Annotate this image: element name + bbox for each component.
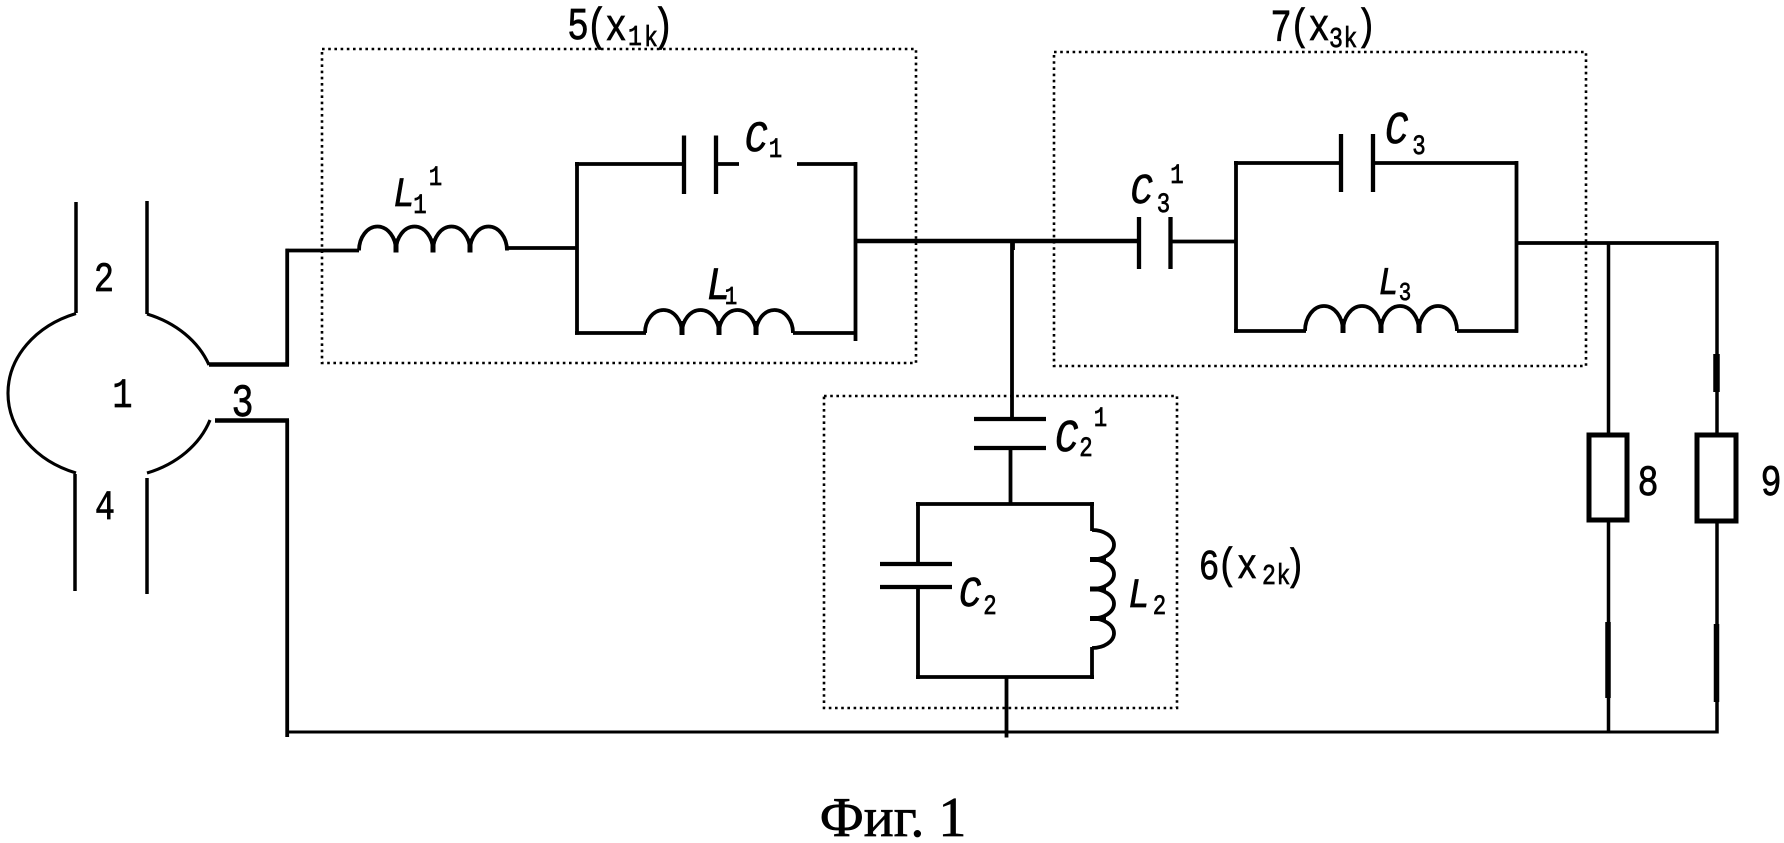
resistor 9 body: [1697, 435, 1736, 521]
tank6 right edge bottom segment: [1090, 647, 1094, 679]
resistor 8 lead top: [1607, 243, 1611, 437]
tank6 left edge upper: [916, 502, 920, 564]
inductor L3 coil: [1305, 306, 1457, 331]
label C2': [1055, 403, 1107, 465]
svg-text:L: L: [1378, 262, 1398, 306]
terminal 4 leads: [75, 474, 147, 594]
terminal 2 leads: [76, 201, 147, 314]
tank7 top-left wire: [1234, 161, 1341, 165]
block 5 title 5(x1k): [567, 1, 674, 54]
svg-text:1: 1: [413, 190, 426, 222]
capacitor C3' plates: [1139, 217, 1171, 269]
svg-text:4: 4: [95, 485, 115, 532]
resistor 9 lead bottom: [1715, 521, 1719, 734]
wire junction down to C2': [1010, 241, 1014, 421]
capacitor C3 plates: [1341, 134, 1373, 192]
device 1 ellipse body: [8, 314, 210, 474]
capacitor C2 plates: [880, 564, 952, 587]
svg-text:C: C: [745, 116, 768, 165]
tank6 right edge top segment: [1090, 502, 1094, 531]
block 6 label 6(x2k): [1199, 542, 1306, 593]
tank5 top-left wire: [575, 162, 684, 166]
svg-text:): ): [1355, 3, 1376, 53]
svg-text:Фиг. 1: Фиг. 1: [820, 787, 967, 843]
inductor L2 coil: [1092, 530, 1114, 648]
wire tank5 to junction to C3': [855, 239, 1140, 244]
svg-text:C: C: [1130, 168, 1152, 217]
svg-text:x: x: [1308, 4, 1330, 55]
svg-text:L: L: [393, 171, 415, 219]
svg-text:): ): [1284, 543, 1305, 593]
svg-text:): ): [652, 1, 674, 54]
tank7 bottom-left wire: [1234, 329, 1306, 333]
svg-text:L: L: [1128, 572, 1150, 620]
svg-text:2: 2: [1079, 433, 1092, 465]
svg-text:3: 3: [1399, 279, 1411, 309]
block 5 dotted box: [322, 49, 916, 363]
svg-text:2: 2: [94, 257, 114, 304]
resistor 9 lead top: [1715, 241, 1719, 437]
wire coil to tank5: [507, 246, 578, 250]
svg-text:2: 2: [1262, 560, 1276, 593]
resistor 8 body: [1589, 435, 1627, 520]
svg-text:1: 1: [1094, 403, 1107, 435]
label C3: [1385, 106, 1426, 163]
resistor 8 lead bottom: [1607, 520, 1611, 733]
label C3': [1130, 160, 1183, 221]
svg-text:1: 1: [429, 162, 442, 194]
svg-text:3: 3: [1157, 189, 1170, 221]
wire C3' to tank7: [1170, 240, 1237, 244]
tank7 right edge: [1515, 161, 1519, 333]
svg-text:(: (: [1217, 542, 1238, 592]
svg-text:1: 1: [1170, 160, 1183, 192]
svg-text:3: 3: [1412, 131, 1425, 163]
wire node3 upper stub: [209, 249, 359, 366]
wire tank6 to bus: [1005, 677, 1009, 738]
bottom bus wire: [286, 731, 1719, 734]
label L3: [1378, 262, 1411, 309]
inductor L1' coil: [359, 227, 507, 251]
wire tank7 to output corner: [1516, 241, 1719, 245]
svg-text:2: 2: [1153, 591, 1166, 623]
svg-text:2: 2: [983, 591, 996, 623]
tank5 right edge: [854, 162, 858, 341]
tank6 top wire: [916, 502, 1094, 506]
capacitor C1 plates: [684, 136, 716, 195]
tank7 bottom-right wire: [1457, 329, 1518, 333]
tank7 left edge: [1234, 161, 1238, 333]
svg-text:C: C: [959, 571, 981, 620]
tank5 left edge: [575, 162, 579, 335]
block 7 dotted box: [1054, 52, 1586, 366]
wire node3 lower stub: [215, 420, 289, 737]
tank6 left edge lower: [916, 587, 920, 679]
block 6 dotted box: [824, 396, 1177, 708]
tank6 bottom wire: [916, 675, 1094, 679]
svg-text:1: 1: [628, 21, 642, 54]
svg-text:(: (: [1289, 3, 1310, 53]
tank5 top-right wire with gap: [716, 162, 739, 166]
tank5 bottom-right wire: [793, 331, 857, 335]
svg-text:3: 3: [1329, 23, 1343, 56]
block 7 title 7(x3k): [1270, 3, 1376, 56]
svg-text:7: 7: [1270, 5, 1292, 56]
capacitor C2' plates: [974, 419, 1046, 448]
node junction: [1011, 241, 1015, 250]
wire C2' to tank6: [1009, 448, 1013, 505]
label L1': [393, 162, 442, 222]
svg-text:1: 1: [769, 134, 782, 166]
label L1: [706, 261, 737, 313]
inductor L1 coil: [645, 310, 793, 333]
svg-text:8: 8: [1637, 459, 1658, 509]
label C2: [959, 571, 997, 623]
label C1: [745, 116, 783, 166]
svg-text:x: x: [1237, 543, 1258, 592]
svg-text:1: 1: [112, 373, 132, 420]
svg-text:9: 9: [1760, 459, 1781, 509]
svg-text:1: 1: [725, 283, 737, 313]
svg-text:C: C: [1385, 106, 1408, 157]
label L2: [1128, 572, 1166, 623]
svg-text:x: x: [605, 4, 627, 55]
tank7 top-right wire: [1373, 161, 1518, 165]
svg-text:C: C: [1055, 414, 1078, 465]
tank5 bottom-left wire: [575, 331, 646, 335]
